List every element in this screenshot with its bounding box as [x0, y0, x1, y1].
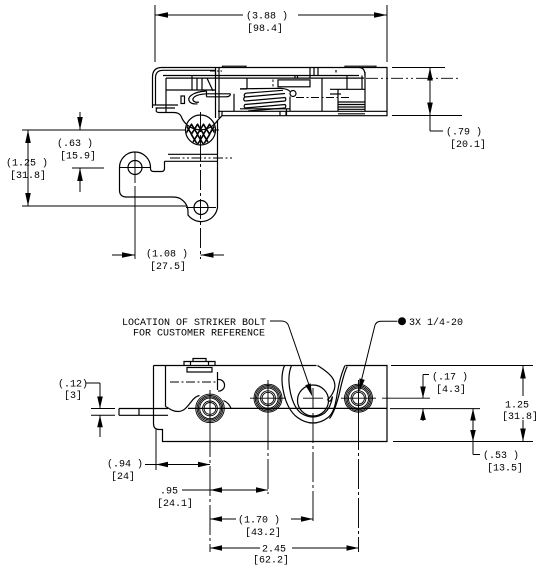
dimension .53 right [473, 409, 480, 455]
dimension .95 [182, 489, 268, 491]
dimension 1.25 right [391, 366, 533, 442]
boss B3 center cross [341, 397, 376, 399]
dimension 1.25 left [22, 205, 187, 207]
svg-text:1.25: 1.25 [505, 401, 529, 412]
vertical centerline below H1 [134, 186, 136, 259]
side view top edge slots [216, 68, 319, 119]
dimension 3.88 arrows [155, 12, 168, 18]
svg-text:(3.88 ): (3.88 ) [246, 11, 288, 23]
hole H2 center cross [186, 207, 216, 209]
left tab [119, 409, 168, 416]
plate bracket outline [120, 152, 165, 171]
side view bottom horizontals [218, 111, 387, 115]
boss B1 center cross [209, 390, 211, 427]
side view latch cam beak [189, 91, 207, 104]
svg-text:[62.2]: [62.2] [253, 555, 289, 567]
U cutout outer left wall [282, 366, 345, 424]
svg-text:[15.9]: [15.9] [60, 151, 96, 163]
hole H2 [194, 201, 208, 215]
svg-text:(1.08 ): (1.08 ) [146, 249, 188, 261]
svg-text:[31.8]: [31.8] [502, 411, 538, 423]
svg-text:[27.5]: [27.5] [150, 261, 186, 273]
side view top edge bumps [223, 66, 247, 67]
body edge horizontal step [188, 407, 387, 409]
small hook detail [218, 379, 225, 391]
svg-text:2.45: 2.45 [262, 545, 286, 556]
raised tab block on top edge [184, 359, 215, 373]
dimension .63 top extension line [22, 129, 186, 131]
plate centerline dash-dot [170, 157, 232, 159]
svg-text:(1.25 ): (1.25 ) [6, 158, 48, 170]
boss B2 [254, 384, 282, 412]
plate arc around knurl [181, 116, 222, 130]
dimension .12 left [86, 383, 115, 437]
side view middle details [240, 68, 322, 116]
dimension .63 extension line at hole1 [72, 167, 104, 169]
striker bolt ghost circle [298, 385, 329, 416]
hole H1 [128, 161, 142, 175]
side view long horizontal line under top edge [163, 75, 359, 77]
svg-text:[20.1]: [20.1] [450, 139, 486, 151]
svg-text:(.12): (.12) [58, 379, 88, 391]
svg-text:(1.70 ): (1.70 ) [238, 515, 280, 527]
centerline horizontal mechanism axis [366, 77, 460, 79]
dimension .63 arrows [79, 112, 81, 130]
bottom flange left [153, 105, 182, 116]
body outline plan view [154, 366, 388, 442]
dimension 1.08 bottom of plate [112, 254, 135, 256]
plate upper edge lines [165, 154, 218, 161]
dash-dot detail line [170, 381, 216, 383]
spring coil [244, 90, 286, 111]
side view left block rectangles [166, 70, 216, 118]
boss B1 [196, 394, 225, 423]
plate right edge upper [217, 121, 219, 162]
svg-text:3X 1/4-20: 3X 1/4-20 [409, 317, 463, 329]
knurl wheel [186, 115, 216, 145]
dimension .17 right [390, 375, 480, 422]
centerlines below body [210, 413, 359, 552]
boss B2 center cross [250, 397, 286, 399]
pocket curve right of boss B1 [224, 401, 232, 409]
svg-text:[24.1]: [24.1] [157, 498, 193, 510]
spring end circle [290, 91, 296, 97]
mini centerline x273 [272, 80, 274, 89]
svg-text:(.53 ): (.53 ) [483, 450, 519, 462]
svg-text:[98.4]: [98.4] [247, 23, 283, 35]
svg-text:FOR CUSTOMER REFERENCE: FOR CUSTOMER REFERENCE [133, 329, 265, 340]
dimension .94 [145, 430, 210, 471]
striker center cross [303, 397, 323, 399]
hole H1 center cross [120, 167, 150, 169]
U cutout right outer second wall [330, 367, 348, 419]
svg-text:(.79 ): (.79 ) [446, 127, 482, 139]
inner block left [166, 366, 218, 407]
wave curl at right lip [318, 366, 335, 400]
side view diagonal detail [207, 78, 213, 91]
dimension 1.70 [210, 518, 313, 520]
svg-text:[4.3]: [4.3] [436, 384, 466, 396]
U cutout inner left wall [289, 366, 333, 418]
svg-text:(.63 ): (.63 ) [57, 138, 93, 150]
side view right block [330, 68, 365, 112]
dimension 2.45 [210, 547, 359, 549]
svg-text:[43.2]: [43.2] [245, 527, 281, 539]
svg-text:.95: .95 [160, 487, 178, 498]
svg-text:[31.8]: [31.8] [10, 170, 46, 182]
side view pre-spring lines [234, 78, 247, 111]
side view body outline [153, 68, 388, 116]
knurl crosshatch [185, 124, 216, 145]
svg-text:(.17 ): (.17 ) [432, 372, 468, 384]
svg-text:[13.5]: [13.5] [487, 463, 523, 475]
wavy pocket outline [166, 396, 200, 412]
dimension 3.88 extension lines [155, 5, 387, 62]
vertical centerline through knurl and H2 [200, 112, 202, 259]
leader to striker [270, 320, 282, 322]
dimension .79 right [392, 68, 462, 132]
centerline screw axis [296, 97, 350, 99]
svg-text:[24]: [24] [111, 471, 135, 483]
side view inner fold line top-left [156, 70, 216, 105]
spring top plate [240, 88, 290, 91]
label 3X 1/4-20 [398, 317, 406, 325]
svg-text:[3]: [3] [64, 390, 82, 402]
side view second horizontal line [166, 77, 364, 79]
centerline upper mechanism axis [210, 70, 222, 72]
svg-text:LOCATION OF STRIKER BOLT: LOCATION OF STRIKER BOLT [122, 318, 266, 329]
svg-text:(.94 ): (.94 ) [107, 459, 143, 471]
boss B3 [345, 384, 373, 412]
